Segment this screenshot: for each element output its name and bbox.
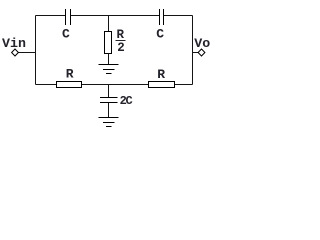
svg-text:C: C [62,26,70,41]
port Vin diamond [12,49,19,56]
port Vo diamond [198,49,205,56]
wire top rail middle segment [71,15,160,17]
resistor R/2 body [105,32,112,54]
ground under R/2 [99,65,119,74]
capacitor C2 plates [160,9,164,25]
svg-text:Vin: Vin [2,36,26,51]
wire right rail [192,16,194,85]
wire R/2 top lead [108,16,110,32]
wire 2C top lead [108,85,110,98]
svg-text:R: R [66,67,74,82]
label R/2 fraction bar [116,40,126,42]
wire top rail right segment [164,15,193,17]
wire R/2 bottom lead [108,54,110,65]
capacitor 2C plates [100,98,118,103]
svg-text:R: R [117,28,125,42]
capacitor C1 plates [66,9,71,25]
svg-text:2: 2 [117,41,125,55]
resistor R2 body (right) [149,82,175,88]
svg-text:C: C [156,26,164,41]
resistor R1 body (left) [57,82,82,88]
wire Vo stub [193,52,199,54]
wire top rail left segment [36,15,66,17]
ground under 2C [99,118,119,127]
wire bottom rail segments [36,84,193,86]
wire left rail [35,16,37,85]
svg-text:2C: 2C [120,94,133,108]
svg-text:Vo: Vo [194,36,210,51]
wire 2C bottom lead [108,103,110,118]
wire Vin stub [18,52,35,54]
svg-text:R: R [157,67,165,82]
